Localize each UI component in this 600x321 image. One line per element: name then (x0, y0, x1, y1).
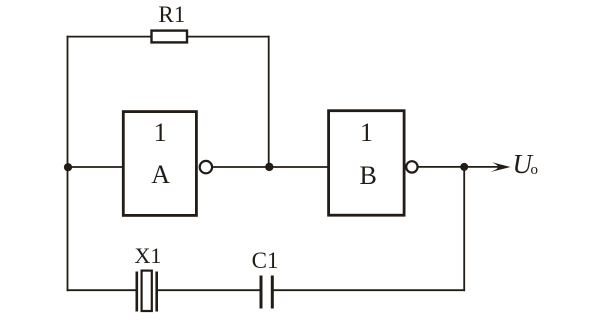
arrowhead of output (491, 162, 511, 172)
inverter gate B body (329, 111, 405, 216)
crystal X1 body (142, 271, 152, 311)
crystal X1 right plate (155, 272, 158, 312)
svg-text:R1: R1 (158, 2, 185, 27)
svg-text:A: A (151, 160, 170, 189)
wire: output node down right vertical (463, 167, 465, 291)
wire: left vertical feedback (67, 36, 69, 291)
capacitor C1 right plate (271, 276, 274, 309)
inverter gate A body (123, 112, 196, 216)
svg-text:C1: C1 (252, 248, 279, 273)
svg-text:1: 1 (154, 118, 167, 147)
wire: bottom from left corner to crystal (67, 289, 137, 291)
svg-text:o: o (531, 162, 539, 178)
svg-text:1: 1 (360, 118, 373, 147)
wire: capacitor to bottom right corner (274, 289, 466, 291)
inversion bubble of gate A (200, 161, 212, 173)
resistor R1 (152, 31, 188, 43)
node B: gate A output junction dot (265, 163, 273, 171)
wire: gate A output to gate B input (212, 166, 329, 168)
wire: R1 to top-right corner (187, 36, 270, 38)
node A: input junction dot (64, 163, 72, 171)
node C: output junction dot (460, 163, 468, 171)
svg-text:X1: X1 (135, 243, 162, 268)
crystal X1 left plate (136, 272, 139, 312)
capacitor C1 left plate (260, 276, 263, 309)
wire: top loop right vertical down to node (268, 36, 270, 167)
wire: crystal to capacitor (158, 289, 260, 291)
svg-text:B: B (360, 161, 377, 190)
wire: gate B output to arrow (418, 166, 506, 168)
wire: input row to gate A (67, 166, 124, 168)
inversion bubble of gate B (406, 161, 417, 172)
wire: top left to R1 (67, 36, 152, 38)
